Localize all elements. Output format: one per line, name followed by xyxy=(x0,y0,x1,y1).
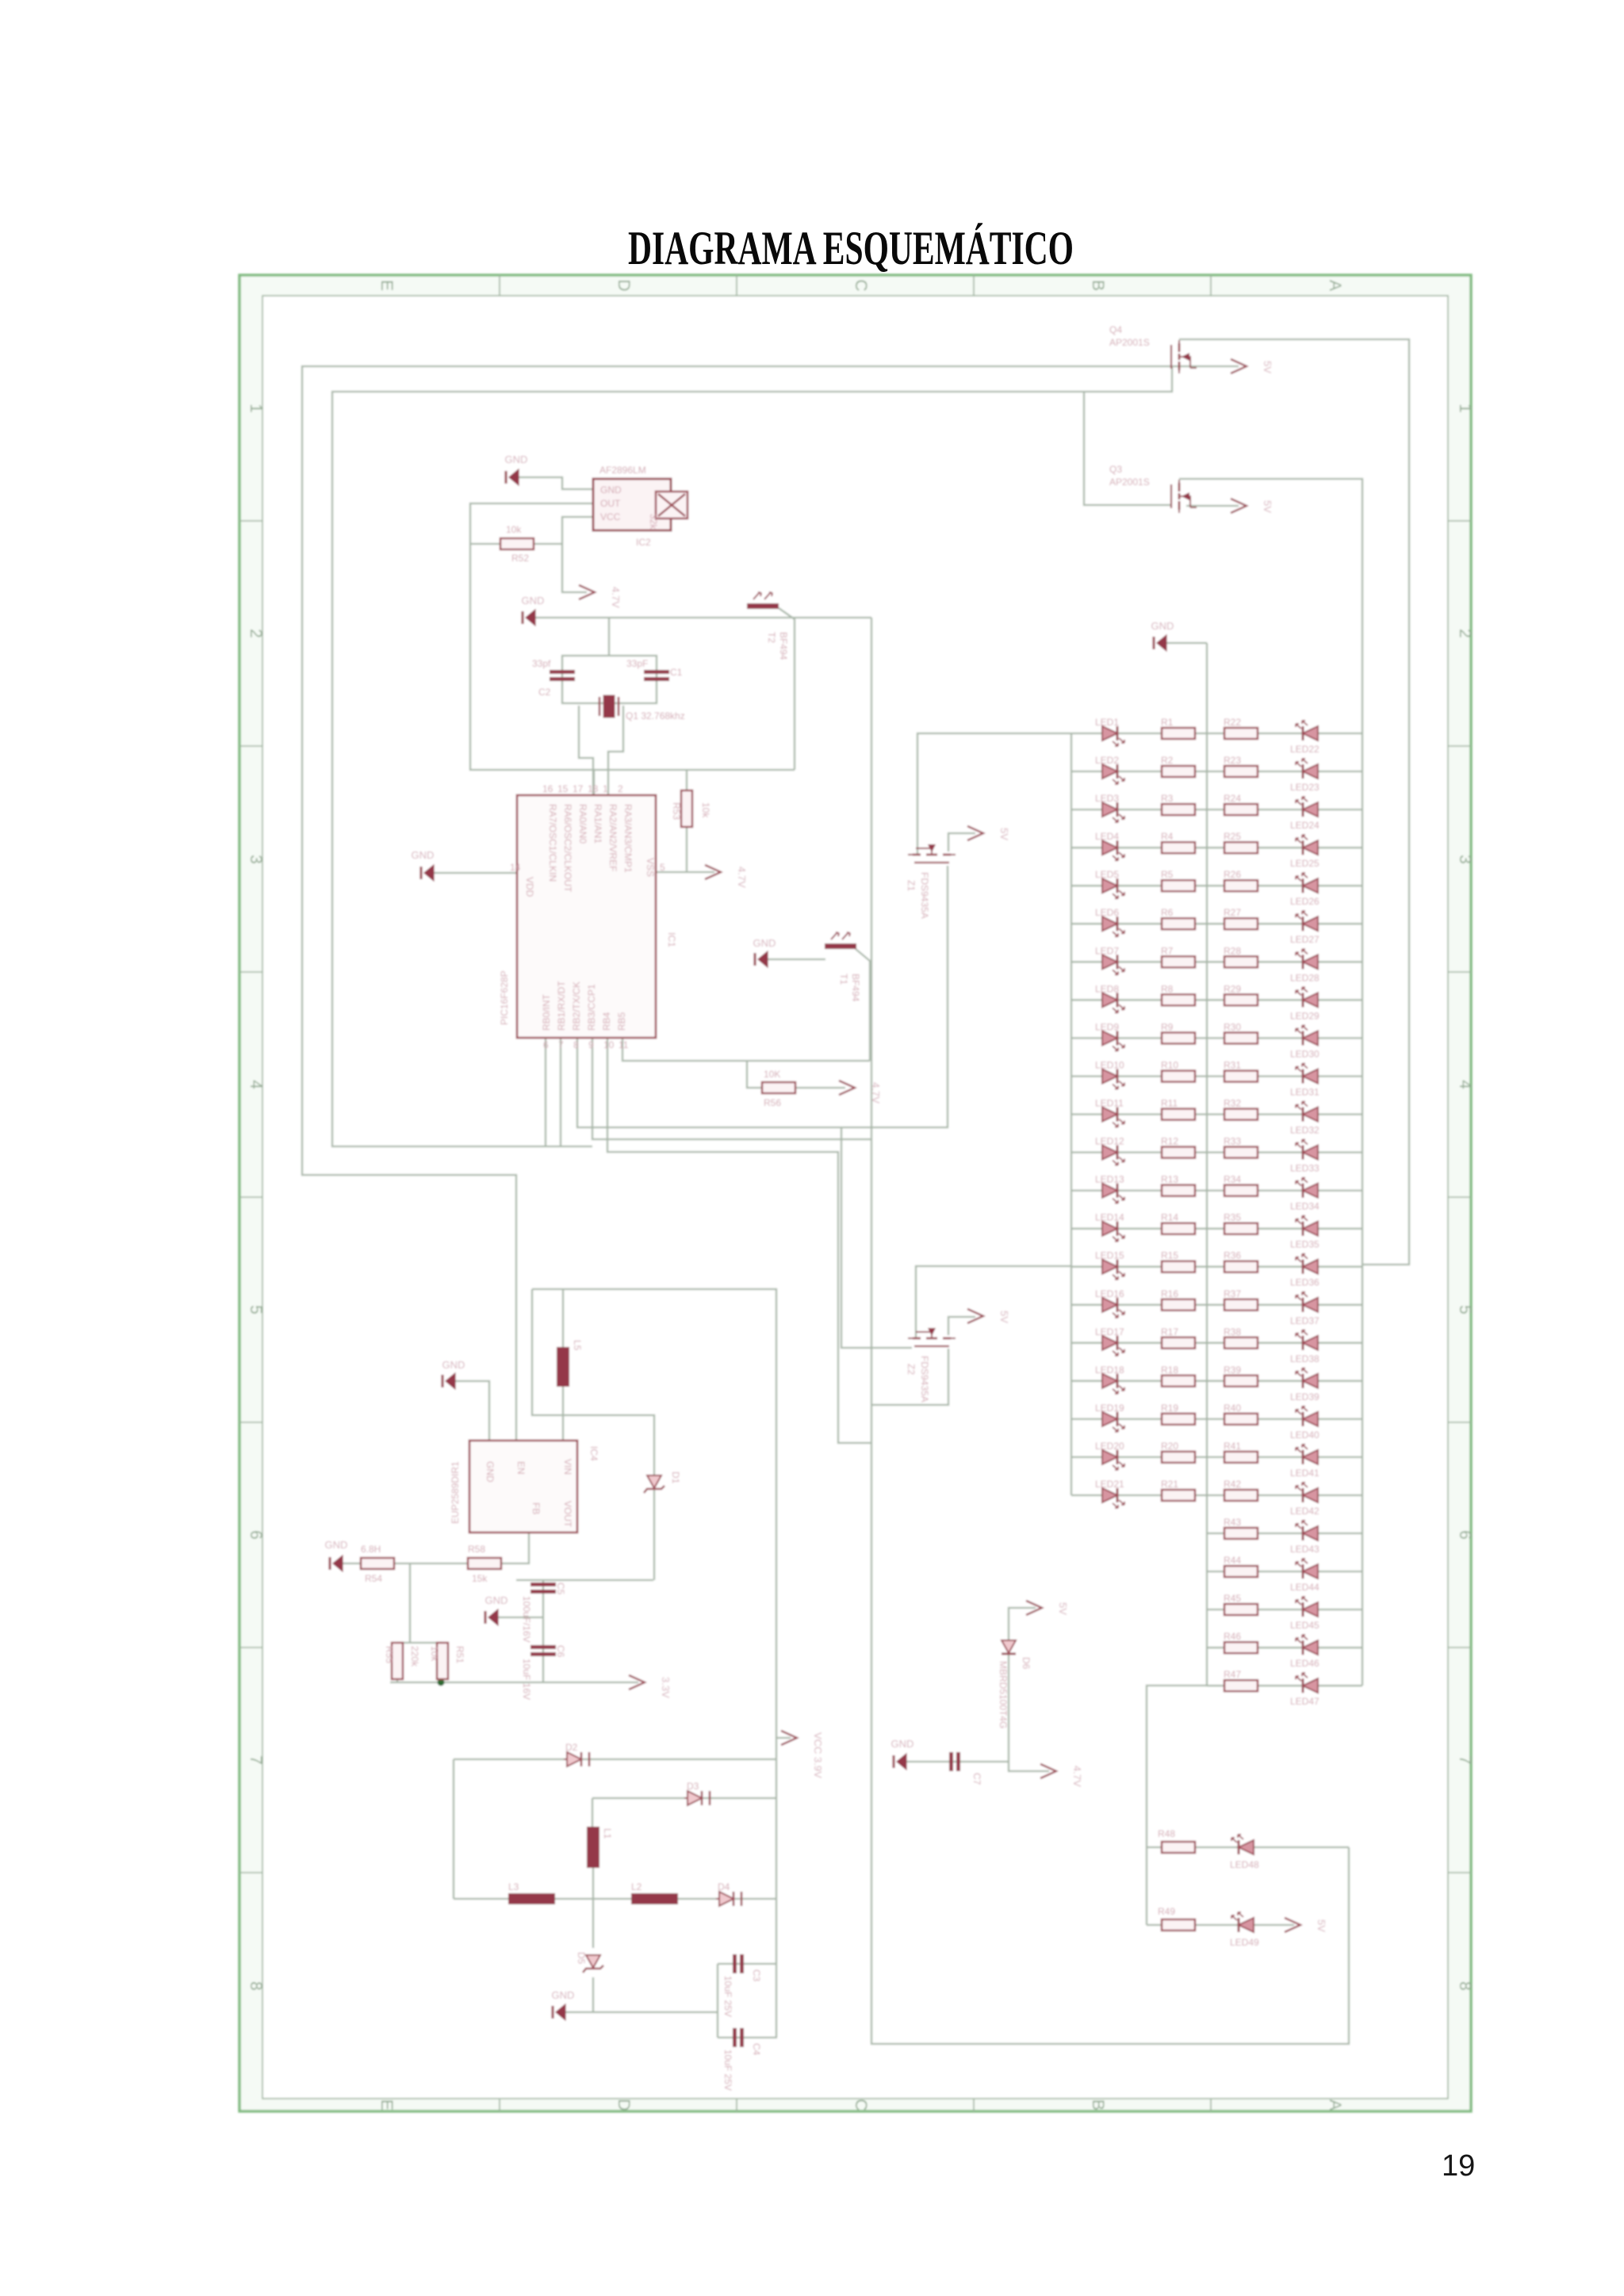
svg-text:FDS9435A: FDS9435A xyxy=(919,1356,930,1402)
wire divider pair top xyxy=(397,1642,442,1644)
wire caps gnd arm xyxy=(498,1617,543,1618)
svg-text:10uF 25V: 10uF 25V xyxy=(722,1976,733,2017)
capacitor C3 xyxy=(722,1954,762,2017)
svg-text:R18: R18 xyxy=(1161,1364,1178,1376)
svg-text:R1: R1 xyxy=(1161,717,1174,728)
diode D1 xyxy=(644,1471,681,1493)
transistor T2 xyxy=(747,592,789,660)
svg-text:2: 2 xyxy=(618,783,623,794)
inductor L2 xyxy=(631,1881,678,1904)
resistor R14 xyxy=(1161,1212,1195,1234)
wire Z1 drain to LED bus xyxy=(917,733,1071,855)
wire LED row 3 xyxy=(1071,809,1362,810)
svg-text:B: B xyxy=(1089,2099,1107,2110)
svg-text:C4: C4 xyxy=(751,2043,762,2056)
svg-text:R19: R19 xyxy=(1161,1402,1178,1414)
GND LED matrix xyxy=(1151,620,1174,651)
svg-text:R52: R52 xyxy=(511,553,529,564)
svg-text:A: A xyxy=(1326,280,1344,291)
resistor R54 xyxy=(361,1544,394,1584)
wire LED row 10 xyxy=(1071,1075,1362,1077)
svg-text:9: 9 xyxy=(588,1039,594,1050)
LED LED11 xyxy=(1095,1098,1124,1127)
LED LED36 xyxy=(1290,1254,1319,1288)
wire LED row 8 xyxy=(1071,999,1362,1001)
LED LED34 xyxy=(1290,1178,1319,1212)
LED LED6 xyxy=(1095,907,1124,936)
wire D5 to gnd row xyxy=(592,1977,594,2012)
wire T1 gnd arm xyxy=(768,959,825,960)
svg-text:RA1/AN1: RA1/AN1 xyxy=(592,804,603,844)
svg-text:6: 6 xyxy=(247,1530,265,1540)
wire L row xyxy=(454,1898,777,1900)
svg-text:3: 3 xyxy=(247,855,265,864)
diode D4 xyxy=(716,1881,741,1906)
svg-text:16: 16 xyxy=(542,783,553,794)
svg-text:4: 4 xyxy=(1456,1080,1474,1089)
svg-text:GND: GND xyxy=(1151,620,1174,632)
IC IC1 PIC16F628 xyxy=(499,783,677,1050)
LED LED43 xyxy=(1290,1521,1319,1555)
svg-text:LED40: LED40 xyxy=(1290,1429,1319,1441)
svg-text:10k: 10k xyxy=(429,1646,440,1662)
wire Z2 drain to LED15 row xyxy=(916,1266,1071,1338)
5V arrow Z2 xyxy=(967,1309,1010,1323)
crystal box of IC2 xyxy=(648,492,688,530)
capacitor C4 xyxy=(722,2028,762,2091)
wire Z2 source stub xyxy=(871,1317,975,1405)
wire LED row 2 xyxy=(1071,771,1362,772)
svg-text:PIC16F628P: PIC16F628P xyxy=(499,970,510,1025)
svg-text:8: 8 xyxy=(1456,1981,1474,1991)
svg-text:R33: R33 xyxy=(1224,1136,1241,1147)
svg-text:8: 8 xyxy=(247,1981,265,1991)
resistor R6 xyxy=(1161,907,1195,929)
capacitor C1 xyxy=(626,658,683,681)
resistor R52 xyxy=(500,524,534,564)
wire LED row 20 xyxy=(1071,1456,1362,1458)
wire cap chain xyxy=(542,1580,544,1682)
svg-text:Q3: Q3 xyxy=(1109,464,1122,475)
svg-text:R31: R31 xyxy=(1224,1060,1241,1071)
svg-text:VCC: VCC xyxy=(600,511,621,522)
svg-text:R15: R15 xyxy=(1161,1250,1178,1261)
svg-text:R6: R6 xyxy=(1161,907,1174,918)
LED LED12 xyxy=(1095,1136,1124,1165)
wire D1 branch xyxy=(565,1415,654,1580)
svg-text:GND: GND xyxy=(325,1539,348,1551)
LED LED35 xyxy=(1290,1216,1319,1250)
svg-text:1: 1 xyxy=(603,783,608,794)
inductor L3 xyxy=(508,1881,555,1904)
resistor R4 xyxy=(1161,831,1195,853)
wire crystal gnd net xyxy=(535,617,871,618)
svg-text:AF2896LM: AF2896LM xyxy=(599,465,646,476)
svg-text:R21: R21 xyxy=(1161,1479,1178,1490)
LED LED40 xyxy=(1290,1406,1319,1441)
svg-text:4: 4 xyxy=(247,1080,265,1089)
resistor R42 xyxy=(1224,1479,1258,1501)
svg-text:7: 7 xyxy=(247,1755,265,1765)
svg-text:2: 2 xyxy=(1456,629,1474,638)
svg-text:LED14: LED14 xyxy=(1095,1212,1124,1223)
GND bridge xyxy=(552,1989,575,2020)
5V arrow LED49 xyxy=(1285,1918,1327,1932)
LED LED14 xyxy=(1095,1212,1124,1242)
resistor R1 xyxy=(1161,717,1195,739)
resistor R16 xyxy=(1161,1288,1195,1311)
svg-text:4.7V: 4.7V xyxy=(1071,1766,1083,1787)
svg-text:LED47: LED47 xyxy=(1290,1696,1319,1707)
svg-text:Z1: Z1 xyxy=(906,880,917,891)
capacitor C2 xyxy=(532,658,575,698)
svg-text:1: 1 xyxy=(1456,404,1474,413)
svg-text:E: E xyxy=(377,280,396,291)
svg-text:7: 7 xyxy=(1456,1755,1474,1765)
svg-text:5V: 5V xyxy=(1262,500,1274,513)
svg-text:VCC 3.9V: VCC 3.9V xyxy=(812,1732,824,1778)
LED LED25 xyxy=(1290,835,1319,869)
resistor R22 xyxy=(1224,717,1258,739)
svg-text:R36: R36 xyxy=(1224,1250,1241,1261)
svg-text:RB3/CCP1: RB3/CCP1 xyxy=(586,984,597,1031)
wire IC1 pin RB4 down xyxy=(607,1038,871,1443)
LED LED2 xyxy=(1095,755,1124,784)
svg-text:33pf: 33pf xyxy=(532,658,551,669)
svg-text:5V: 5V xyxy=(1262,361,1274,373)
svg-text:5: 5 xyxy=(247,1305,265,1314)
5V arrow D6 xyxy=(1026,1601,1069,1615)
wire IC1 4.7V arm xyxy=(656,871,714,873)
svg-text:17: 17 xyxy=(573,783,584,794)
wire Q4 gate net xyxy=(332,367,1172,1146)
wire power loop left drop xyxy=(532,1289,565,1415)
resistor R13 xyxy=(1161,1174,1195,1196)
LED LED23 xyxy=(1290,759,1319,793)
4.7V arrow IC1 xyxy=(705,865,748,888)
inductor L1 xyxy=(587,1827,613,1868)
svg-text:LED29: LED29 xyxy=(1290,1010,1319,1021)
svg-text:L1: L1 xyxy=(602,1828,613,1839)
resistor R24 xyxy=(1224,793,1258,815)
resistor R37 xyxy=(1224,1288,1258,1311)
LED LED21 xyxy=(1095,1479,1124,1508)
LED LED8 xyxy=(1095,983,1124,1012)
wire LED row 7 xyxy=(1071,961,1362,962)
resistor R28 xyxy=(1224,945,1258,967)
svg-text:T1: T1 xyxy=(838,974,849,985)
GND T1 xyxy=(753,937,776,967)
svg-text:GND: GND xyxy=(522,595,545,607)
svg-text:R23: R23 xyxy=(1224,755,1241,766)
svg-text:R44: R44 xyxy=(1224,1555,1241,1566)
svg-text:5V: 5V xyxy=(1057,1602,1069,1615)
capacitor C6 xyxy=(521,1645,566,1700)
wire bottom gnd row xyxy=(565,2011,718,2013)
svg-text:EUP2589DIR1: EUP2589DIR1 xyxy=(450,1461,461,1524)
resistor R12 xyxy=(1161,1136,1195,1158)
resistor R34 xyxy=(1224,1174,1258,1196)
svg-text:Q1 32.768khz: Q1 32.768khz xyxy=(626,710,685,721)
resistor R46 xyxy=(1224,1631,1258,1653)
resistor R44 xyxy=(1224,1555,1258,1577)
svg-text:LED42: LED42 xyxy=(1290,1506,1319,1517)
svg-text:LED21: LED21 xyxy=(1095,1479,1124,1490)
3.3V arrow xyxy=(629,1675,672,1698)
svg-text:33pF: 33pF xyxy=(626,658,648,669)
wire LED row 6 xyxy=(1071,923,1362,924)
wire LED row 21 xyxy=(1071,1494,1362,1496)
LED LED16 xyxy=(1095,1288,1124,1318)
svg-text:C: C xyxy=(852,279,870,291)
wire matrix lower feeder xyxy=(1147,1686,1207,1925)
svg-text:LED3: LED3 xyxy=(1095,793,1119,804)
svg-text:R41: R41 xyxy=(1224,1441,1241,1452)
resistor R11 xyxy=(1161,1098,1195,1120)
svg-text:MBRD5100T4G: MBRD5100T4G xyxy=(998,1661,1009,1728)
LED LED9 xyxy=(1095,1021,1124,1050)
transistor Z2 xyxy=(906,1328,956,1402)
frame outer border xyxy=(239,275,1471,2111)
LED LED32 xyxy=(1290,1102,1319,1136)
5V arrow Q3 xyxy=(1231,499,1274,513)
svg-text:RB4: RB4 xyxy=(601,1012,612,1031)
svg-text:LED23: LED23 xyxy=(1290,782,1319,793)
svg-text:7: 7 xyxy=(558,1039,564,1050)
svg-text:E: E xyxy=(377,2099,396,2110)
wire LED row 13 xyxy=(1071,1189,1362,1191)
wire LED row 43 xyxy=(1207,1533,1362,1534)
svg-text:GND: GND xyxy=(485,1594,508,1606)
resistor R10 xyxy=(1161,1060,1195,1082)
svg-text:LED7: LED7 xyxy=(1095,945,1119,956)
svg-text:LED37: LED37 xyxy=(1290,1315,1319,1326)
svg-text:L2: L2 xyxy=(631,1881,642,1892)
wire Q3 source stub xyxy=(1186,505,1239,507)
svg-text:C2: C2 xyxy=(538,687,551,698)
resistor R40 xyxy=(1224,1402,1258,1425)
svg-text:LED1: LED1 xyxy=(1095,717,1119,728)
LED LED48 xyxy=(1230,1835,1259,1870)
wire T2 emitter to IC1 xyxy=(779,608,795,770)
wire LED row 17 xyxy=(1071,1342,1362,1344)
svg-text:R11: R11 xyxy=(1161,1098,1178,1109)
wire power loop top xyxy=(532,1289,776,2038)
svg-text:LED12: LED12 xyxy=(1095,1136,1124,1147)
resistor R48 xyxy=(1158,1828,1195,1853)
wire LED row 45 xyxy=(1207,1609,1362,1610)
svg-text:5V: 5V xyxy=(998,1311,1010,1323)
wire LED48 row xyxy=(1147,1846,1349,1848)
svg-text:OUT: OUT xyxy=(600,498,621,509)
GND IC4 xyxy=(442,1359,465,1389)
LED LED15 xyxy=(1095,1250,1124,1280)
wire Z1 source stub xyxy=(948,833,975,851)
svg-text:BF494: BF494 xyxy=(850,974,861,1002)
svg-text:RA7/OSC1/CLKIN: RA7/OSC1/CLKIN xyxy=(547,804,558,882)
LED LED3 xyxy=(1095,793,1124,822)
svg-text:VOUT: VOUT xyxy=(562,1501,573,1528)
svg-text:GND: GND xyxy=(485,1461,496,1483)
5V arrow Q4 xyxy=(1231,359,1274,373)
LED LED19 xyxy=(1095,1402,1124,1432)
svg-text:3.3V: 3.3V xyxy=(660,1677,672,1698)
svg-text:VSS: VSS xyxy=(645,858,656,877)
wire LED49 row xyxy=(1147,1924,1294,1926)
resistor R8 xyxy=(1161,983,1195,1005)
svg-text:10k: 10k xyxy=(700,802,711,818)
transistor T1 xyxy=(825,932,861,1002)
resistor R33 xyxy=(1224,1136,1258,1158)
4.7V arrow D6 xyxy=(1040,1764,1083,1787)
resistor R36 xyxy=(1224,1250,1258,1272)
svg-text:10uF 16V: 10uF 16V xyxy=(521,1659,532,1700)
wire IC1 pin RB1 down xyxy=(560,1038,561,1146)
svg-text:RB1/RX/DT: RB1/RX/DT xyxy=(556,981,567,1031)
svg-text:D3: D3 xyxy=(687,1781,699,1792)
svg-text:LED9: LED9 xyxy=(1095,1021,1119,1032)
svg-text:Q4: Q4 xyxy=(1109,324,1122,335)
svg-text:D4: D4 xyxy=(718,1881,730,1892)
resistor R29 xyxy=(1224,983,1258,1005)
LED LED1 xyxy=(1095,717,1124,746)
svg-text:LED41: LED41 xyxy=(1290,1468,1319,1479)
LED LED31 xyxy=(1290,1064,1319,1098)
wire 4.7V stub at IC2 xyxy=(562,544,587,592)
svg-text:R32: R32 xyxy=(1224,1098,1241,1109)
wire 5V to D6 xyxy=(1009,1608,1049,1771)
wire IC2 out net xyxy=(470,503,795,770)
svg-text:C: C xyxy=(852,2099,870,2110)
wire LED row 12 xyxy=(1071,1151,1362,1153)
resistor R18 xyxy=(1161,1364,1195,1387)
svg-text:GND: GND xyxy=(505,453,528,465)
resistor R35 xyxy=(1224,1212,1258,1234)
wire C3 row xyxy=(718,1963,777,1965)
resistor R43 xyxy=(1224,1517,1258,1539)
svg-text:R14: R14 xyxy=(1161,1212,1178,1223)
resistor R2 xyxy=(1161,755,1195,777)
5V arrow Z1 xyxy=(967,826,1010,840)
wire D3 to L1 xyxy=(592,1798,593,1827)
svg-text:5V: 5V xyxy=(1316,1919,1327,1932)
svg-text:A: A xyxy=(1326,2099,1344,2110)
resistor R38 xyxy=(1224,1326,1258,1349)
svg-text:R47: R47 xyxy=(1224,1669,1241,1680)
svg-text:LED25: LED25 xyxy=(1290,858,1319,869)
svg-text:LED44: LED44 xyxy=(1290,1582,1319,1593)
svg-text:R51: R51 xyxy=(454,1646,465,1663)
svg-text:R13: R13 xyxy=(1161,1174,1178,1185)
LED LED33 xyxy=(1290,1140,1319,1174)
svg-text:R27: R27 xyxy=(1224,907,1241,918)
svg-text:EN: EN xyxy=(515,1461,527,1475)
resistor R27 xyxy=(1224,907,1258,929)
resistor R47 xyxy=(1224,1669,1258,1691)
LED LED27 xyxy=(1290,911,1319,945)
svg-text:AP2001S: AP2001S xyxy=(1109,476,1150,488)
frame inner border xyxy=(262,296,1448,2099)
resistor R45 xyxy=(1224,1593,1258,1615)
svg-text:R39: R39 xyxy=(1224,1364,1241,1376)
svg-text:GND: GND xyxy=(753,937,776,949)
svg-text:L5: L5 xyxy=(572,1340,583,1351)
resistor R15 xyxy=(1161,1250,1195,1272)
svg-text:RA0/AN0: RA0/AN0 xyxy=(577,804,588,844)
svg-text:10uF 25V: 10uF 25V xyxy=(722,2049,733,2091)
LED LED24 xyxy=(1290,797,1319,831)
svg-text:6: 6 xyxy=(543,1039,549,1050)
svg-text:LED48: LED48 xyxy=(1230,1859,1259,1870)
svg-text:R3: R3 xyxy=(1161,793,1174,804)
svg-text:R26: R26 xyxy=(1224,869,1241,880)
diode D6 xyxy=(998,1640,1032,1728)
svg-text:R4: R4 xyxy=(1161,831,1174,842)
wire output rail 1993 xyxy=(516,1579,653,1581)
svg-text:R42: R42 xyxy=(1224,1479,1241,1490)
IC2 oscillator module AF2896LM xyxy=(593,465,671,548)
wire VCC 3.9V stub xyxy=(777,1737,791,1739)
wire L1 to bridge xyxy=(592,1868,594,1948)
svg-text:R10: R10 xyxy=(1161,1060,1178,1071)
svg-text:10k: 10k xyxy=(506,524,522,535)
svg-text:R48: R48 xyxy=(1158,1828,1175,1839)
svg-text:D6: D6 xyxy=(1021,1657,1032,1670)
svg-text:GND: GND xyxy=(442,1359,465,1371)
svg-text:LED30: LED30 xyxy=(1290,1048,1319,1059)
resistor R25 xyxy=(1224,831,1258,853)
svg-text:GND: GND xyxy=(600,484,622,496)
svg-text:R45: R45 xyxy=(1224,1593,1241,1604)
wire LED row 9 xyxy=(1071,1037,1362,1039)
svg-text:R22: R22 xyxy=(1224,717,1241,728)
svg-text:D: D xyxy=(615,279,633,291)
wire crystal loop xyxy=(562,656,657,703)
svg-text:LED38: LED38 xyxy=(1290,1353,1319,1364)
svg-text:R43: R43 xyxy=(1224,1517,1241,1528)
LED LED46 xyxy=(1290,1635,1319,1669)
svg-text:5V: 5V xyxy=(998,828,1010,840)
wire C3 C4 left link xyxy=(717,1964,718,2038)
resistor R30 xyxy=(1224,1021,1258,1043)
svg-text:D5: D5 xyxy=(576,1952,587,1965)
svg-text:LED32: LED32 xyxy=(1290,1125,1319,1136)
svg-text:LED15: LED15 xyxy=(1095,1250,1124,1261)
wire IC1 VDD gnd arm xyxy=(434,872,517,874)
svg-text:IC4: IC4 xyxy=(588,1446,599,1461)
svg-text:RA3/AN3/CMP1: RA3/AN3/CMP1 xyxy=(622,804,634,873)
GND R54 xyxy=(325,1539,348,1571)
wire LED row 14 xyxy=(1071,1228,1362,1230)
svg-text:LED35: LED35 xyxy=(1290,1239,1319,1250)
wire LED row 44 xyxy=(1207,1571,1362,1572)
svg-text:14: 14 xyxy=(510,862,521,873)
LED LED30 xyxy=(1290,1025,1319,1059)
wire Q4 drain bus xyxy=(1179,339,1409,1265)
svg-text:AP2001S: AP2001S xyxy=(1109,337,1150,348)
LED LED10 xyxy=(1095,1060,1124,1089)
svg-text:R12: R12 xyxy=(1161,1136,1178,1147)
svg-text:LED17: LED17 xyxy=(1095,1326,1124,1337)
svg-text:18: 18 xyxy=(588,783,599,794)
svg-text:LED39: LED39 xyxy=(1290,1391,1319,1402)
capacitor C7 xyxy=(949,1752,982,1785)
svg-text:32k: 32k xyxy=(648,514,659,530)
svg-text:4.7V: 4.7V xyxy=(870,1082,882,1104)
svg-text:FB: FB xyxy=(530,1502,542,1514)
wire D2 row xyxy=(454,1758,777,1760)
wire Q3 drain right bus xyxy=(1179,479,1362,1686)
